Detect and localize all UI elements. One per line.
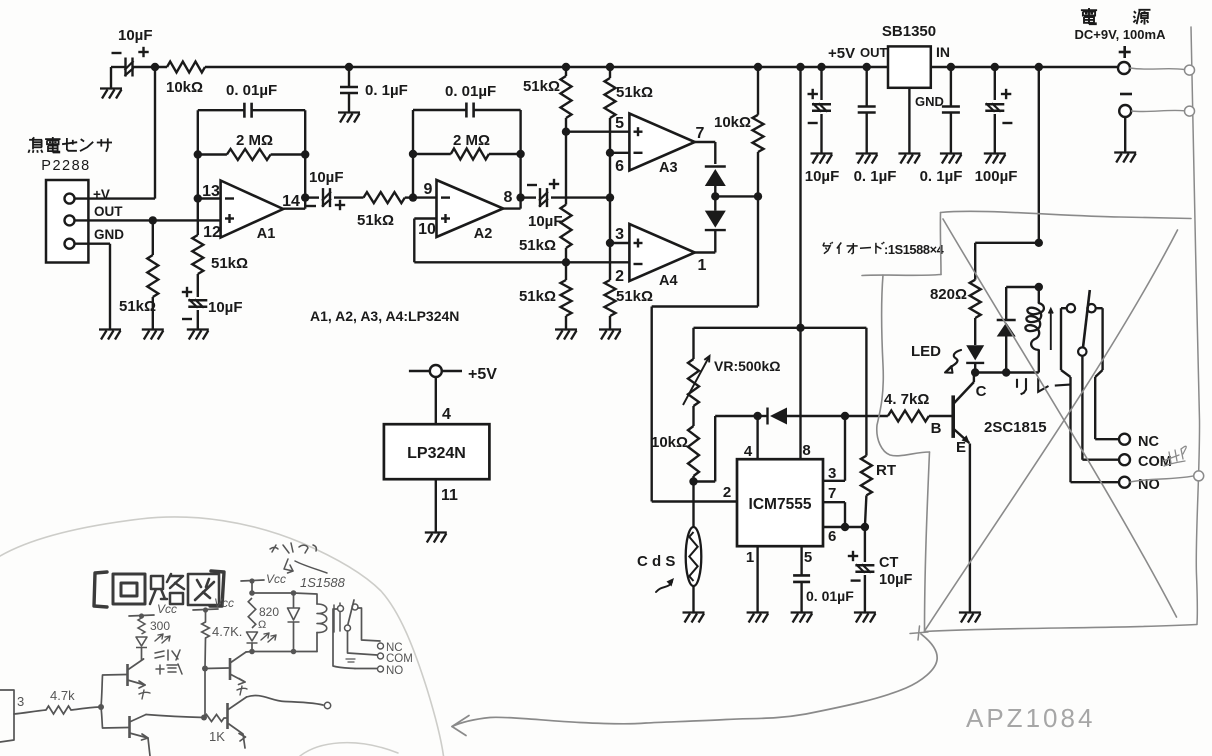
svg-text:8: 8 — [802, 442, 810, 459]
svg-text:2: 2 — [723, 484, 731, 501]
relay switch contacts — [1061, 304, 1103, 312]
diode 1S1588 D2 — [705, 211, 726, 231]
ground — [791, 613, 813, 623]
LED — [911, 343, 984, 373]
node rail x800 — [796, 63, 804, 71]
svg-text:COM: COM — [1138, 454, 1172, 470]
svg-text:51kΩ: 51kΩ — [616, 84, 653, 101]
svg-text:Vcc: Vcc — [214, 596, 234, 610]
node collector junction — [971, 368, 979, 376]
capacitor 10µF input filter — [112, 27, 153, 77]
ground — [142, 330, 164, 340]
svg-text:C d S: C d S — [637, 553, 675, 570]
resistor 51kΩ A1 gain — [192, 199, 248, 298]
regulator SB1350 — [860, 23, 950, 109]
wire — [133, 66, 168, 68]
wire A4 output — [695, 230, 716, 252]
node reference line — [562, 258, 570, 266]
svg-text:GND: GND — [915, 94, 944, 109]
ground sensor — [99, 330, 121, 340]
resistor RT — [861, 328, 896, 527]
wire — [111, 67, 126, 88]
capacitor 0.1µF input side — [920, 63, 963, 185]
svg-text:51kΩ: 51kΩ — [519, 288, 556, 305]
svg-text:51kΩ: 51kΩ — [519, 237, 556, 254]
capacitor 100µF input — [975, 63, 1018, 185]
wire A2 output — [503, 193, 536, 208]
op-amp A1 feedback capacitor 0.01µF — [198, 82, 305, 118]
node +V rail junction — [151, 63, 159, 71]
node rail x1038.8 — [1035, 63, 1043, 71]
svg-text:0. 1µF: 0. 1µF — [365, 82, 408, 99]
resistor 51kΩ divider top-right — [605, 67, 654, 153]
node OUT / 51k junction — [149, 216, 157, 224]
svg-text:51kΩ: 51kΩ — [616, 288, 653, 305]
ground — [940, 154, 962, 164]
svg-text:6: 6 — [615, 158, 624, 175]
wire feedback left — [412, 110, 414, 198]
ground — [811, 154, 833, 164]
terminal - 9V — [1119, 94, 1132, 117]
ground — [683, 613, 705, 623]
svg-text:OUT: OUT — [860, 45, 888, 60]
node rail x610 — [606, 63, 614, 71]
transistor Q1 2SC1815 — [929, 373, 1047, 457]
node coil top — [1035, 283, 1043, 291]
wire — [334, 196, 364, 198]
svg-text:3: 3 — [615, 226, 624, 243]
node relay top — [1035, 239, 1043, 247]
wire signal vertical — [609, 153, 611, 243]
wire diode junction to 10k — [715, 192, 762, 200]
svg-text:9: 9 — [424, 181, 433, 198]
wire main +V rail — [205, 66, 888, 68]
wire feedback right — [519, 110, 521, 209]
svg-text:RT: RT — [876, 462, 896, 479]
svg-text:820: 820 — [259, 605, 279, 619]
svg-text:10kΩ: 10kΩ — [651, 434, 688, 451]
svg-text:12: 12 — [203, 224, 221, 241]
ground — [984, 154, 1006, 164]
svg-text:10µF: 10µF — [118, 27, 153, 44]
resistor 51kΩ divider mid — [519, 205, 572, 263]
svg-text:10µF: 10µF — [309, 169, 344, 186]
resistor 2MΩ A2 feedback — [409, 132, 525, 160]
svg-text:10kΩ: 10kΩ — [714, 114, 751, 131]
svg-text:2 MΩ: 2 MΩ — [453, 132, 490, 149]
sensor P2288 焦電センサ — [28, 137, 124, 263]
pencil terminal circle - — [1132, 106, 1195, 116]
pencil title 回路図 — [94, 571, 224, 607]
svg-text:Vcc: Vcc — [157, 602, 177, 616]
wire divider mid-left — [565, 132, 567, 205]
pencil tick at box corner — [910, 626, 928, 640]
ground — [856, 154, 878, 164]
node CdS junction — [689, 477, 697, 485]
node signal to comparators — [606, 193, 614, 201]
pencil curved arrow — [452, 634, 937, 736]
wire rail down to relay — [1038, 67, 1040, 243]
svg-text:1: 1 — [746, 549, 754, 566]
ground — [425, 533, 447, 543]
svg-text:DC+9V, 100mA: DC+9V, 100mA — [1075, 27, 1167, 42]
svg-text:3: 3 — [828, 465, 836, 482]
wire pin 4 stub — [744, 416, 758, 460]
svg-text:100µF: 100µF — [975, 168, 1018, 185]
svg-text:1: 1 — [698, 257, 707, 274]
resistor 820Ω — [930, 280, 981, 318]
svg-text:COM: COM — [386, 653, 413, 665]
capacitor 0.1µF +5V — [854, 63, 897, 185]
wire pin 1 — [756, 546, 758, 612]
wire A3 plus — [566, 130, 629, 132]
svg-text:SB1350: SB1350 — [882, 23, 936, 40]
svg-text:NC: NC — [1138, 434, 1159, 450]
wire relay top branch — [975, 243, 1039, 280]
wire +5V feed down to timer — [799, 67, 801, 459]
resistor 2MΩ A1 feedback — [194, 132, 310, 160]
wire - terminal to ground — [1124, 117, 1126, 152]
wire — [711, 186, 719, 211]
terminal NC — [1119, 434, 1159, 450]
svg-text:10µF: 10µF — [805, 168, 840, 185]
wire diode line to base resistor — [845, 415, 888, 417]
pencil terminal circle NO — [1130, 471, 1204, 482]
terminal +5V LP324N — [409, 365, 497, 383]
relay armature — [1078, 290, 1090, 356]
node A4 plus input — [606, 239, 614, 247]
svg-text:LED: LED — [911, 343, 941, 360]
wire feedback right — [304, 110, 306, 209]
wire — [974, 318, 976, 345]
svg-text:0. 1µF: 0. 1µF — [854, 168, 897, 185]
wire A1 output — [283, 193, 319, 208]
svg-text:1K: 1K — [209, 729, 225, 744]
resistor 51kΩ divider bottom-right — [605, 243, 654, 329]
wire pin 3 — [823, 416, 845, 481]
svg-text:10µF: 10µF — [208, 299, 243, 316]
wire NC path — [1095, 308, 1119, 439]
pencil sketch blob outline — [0, 517, 444, 756]
node flyback bottom — [1002, 368, 1010, 376]
svg-text:APZ1084: APZ1084 — [966, 703, 1095, 733]
svg-text:10µF: 10µF — [879, 572, 912, 588]
svg-text:CT: CT — [879, 555, 898, 571]
wire COM path — [1082, 356, 1119, 460]
svg-text:0. 01µF: 0. 01µF — [226, 82, 277, 99]
svg-text:5: 5 — [804, 549, 812, 566]
svg-text:GND: GND — [94, 227, 124, 242]
wire +V from sensor — [75, 67, 156, 199]
terminal + 9V — [1118, 46, 1131, 74]
diode 1S1588 D1 — [705, 167, 726, 187]
wire relay bottom line — [975, 371, 1039, 373]
svg-text:NO: NO — [386, 665, 403, 677]
svg-text:2SC1815: 2SC1815 — [984, 419, 1047, 436]
svg-text:P2288: P2288 — [41, 158, 90, 174]
svg-text:51kΩ: 51kΩ — [119, 298, 156, 315]
svg-text:10: 10 — [418, 221, 436, 238]
ground — [599, 330, 621, 340]
wire pin 11 — [436, 479, 458, 532]
pencil X diagonal 2 — [925, 230, 1178, 631]
resistor 51kΩ divider bottom-left — [519, 262, 572, 329]
wire pin 8 stub — [799, 415, 801, 417]
op-amp A1 — [202, 181, 300, 243]
svg-text:IN: IN — [936, 44, 950, 60]
capacitor 10µF A1 gain — [182, 287, 243, 329]
node rail x758 — [754, 63, 762, 71]
resistor 4.7kΩ base — [884, 391, 929, 422]
wire A3 output — [695, 142, 716, 164]
terminal COM — [1119, 454, 1172, 470]
wire pin 4 — [436, 377, 451, 424]
svg-text:1S1588: 1S1588 — [300, 575, 346, 590]
ground — [555, 330, 577, 340]
wire comparator output to timer trigger — [652, 196, 758, 501]
svg-text:10µF: 10µF — [528, 213, 563, 230]
variable resistor VR 500kΩ — [683, 328, 780, 406]
wire — [974, 363, 976, 373]
svg-text:OUT: OUT — [94, 204, 123, 219]
node A3 plus input — [562, 128, 570, 136]
svg-text:4.7k: 4.7k — [50, 688, 75, 703]
op-amp A2 — [418, 180, 512, 242]
wire rail to power terminal — [931, 66, 1118, 68]
op-amp A4 — [615, 224, 706, 289]
timer IC ICM7555 — [723, 442, 837, 566]
label diode note ダイオード:1S1588×4 — [823, 242, 945, 257]
svg-text:A2: A2 — [474, 226, 493, 242]
wire — [551, 196, 610, 198]
svg-text:820Ω: 820Ω — [930, 286, 967, 303]
capacitor 10µF +5V — [805, 63, 840, 185]
wire regulator ground — [908, 88, 910, 153]
svg-text:VR:500kΩ: VR:500kΩ — [714, 358, 780, 374]
label +5V — [828, 45, 855, 62]
svg-text:0. 1µF: 0. 1µF — [920, 168, 963, 185]
svg-text:7: 7 — [696, 125, 705, 142]
ground — [898, 154, 920, 164]
wire pin 6 — [823, 523, 869, 531]
pencil sketch wires and parts — [0, 543, 413, 756]
svg-text:4. 7kΩ: 4. 7kΩ — [884, 391, 929, 408]
svg-text:5: 5 — [615, 115, 624, 132]
label LP324N assignment — [310, 308, 459, 324]
node pin4 — [753, 412, 761, 420]
pencil mark near COM — [1163, 446, 1186, 466]
op-amp A3 — [615, 114, 704, 177]
svg-text:0. 01µF: 0. 01µF — [806, 588, 854, 604]
svg-text:+5V: +5V — [468, 366, 497, 383]
wire A4 plus — [610, 242, 629, 244]
pencil cross-out box — [862, 211, 1197, 631]
capacitor 0.1µF rail decoupling — [340, 63, 408, 112]
svg-text:A4: A4 — [659, 273, 678, 289]
capacitor 10µF coupling A1-A2 — [306, 169, 345, 210]
wire junction to reset line — [694, 416, 758, 482]
svg-text:LP324N: LP324N — [407, 445, 466, 462]
wire A3 minus — [610, 152, 629, 154]
svg-text:E: E — [956, 439, 966, 456]
svg-text:8: 8 — [504, 189, 513, 206]
svg-text:4: 4 — [744, 443, 753, 460]
svg-text:ICM7555: ICM7555 — [749, 496, 812, 513]
diode flyback 1S1588 — [997, 287, 1039, 373]
IC LP324N — [384, 424, 490, 479]
ground — [959, 613, 981, 623]
pencil label APZ1084 — [966, 703, 1095, 733]
svg-text::1S1588×4: :1S1588×4 — [884, 242, 945, 257]
svg-text:11: 11 — [441, 487, 458, 504]
svg-text:Ω: Ω — [258, 619, 266, 631]
wire NO path — [1061, 308, 1119, 482]
svg-text:3: 3 — [17, 694, 24, 709]
wire pin 7 — [823, 502, 849, 531]
wire OUT from sensor — [75, 219, 221, 221]
resistor 10kΩ CdS divider — [651, 406, 699, 482]
resistor 10kΩ — [166, 62, 205, 97]
svg-text:0. 01µF: 0. 01µF — [445, 83, 496, 100]
svg-text:C: C — [976, 383, 987, 400]
ground — [338, 113, 360, 123]
ground — [747, 613, 769, 623]
wire GND from sensor — [75, 244, 111, 329]
svg-text:B: B — [931, 420, 942, 437]
capacitor CT 10µF — [848, 527, 913, 612]
ground — [854, 613, 876, 623]
wire A1 inverting input — [194, 194, 221, 202]
svg-text:A3: A3 — [659, 160, 678, 176]
resistor 51kΩ divider top-left — [523, 67, 572, 132]
pencil X diagonal 1 — [943, 219, 1177, 617]
svg-text:A1, A2, A3, A4:LP324N: A1, A2, A3, A4:LP324N — [310, 308, 459, 324]
svg-text:51kΩ: 51kΩ — [357, 212, 394, 229]
relay coil リレー — [1017, 287, 1070, 394]
svg-text:4: 4 — [442, 406, 451, 423]
resistor 10kΩ pull-up — [714, 67, 764, 196]
svg-text:A1: A1 — [257, 226, 276, 242]
node pin3 line — [841, 412, 849, 420]
pencil right edge line — [1191, 27, 1200, 624]
svg-text:7: 7 — [828, 485, 836, 502]
ground — [1114, 153, 1136, 163]
node rail x566 — [562, 63, 570, 71]
svg-text:10kΩ: 10kΩ — [166, 79, 203, 96]
capacitor 10µF coupling A2-comparators — [527, 179, 563, 230]
svg-text:4.7K.: 4.7K. — [212, 624, 242, 639]
resistor 51kΩ sensor load — [119, 220, 158, 329]
wire VR top line — [694, 324, 867, 332]
ground — [100, 89, 122, 99]
wire A2 non-inverting to reference — [414, 219, 629, 263]
svg-text:+5V: +5V — [828, 45, 855, 62]
svg-text:Vcc: Vcc — [266, 572, 286, 586]
wire feedback left — [197, 110, 199, 198]
svg-text:300: 300 — [150, 619, 170, 633]
diode 1S1588 reset — [758, 408, 845, 425]
capacitor 0.01µF pin5 — [793, 546, 854, 612]
svg-text:6: 6 — [828, 528, 836, 545]
wire A2 inverting input — [409, 193, 437, 201]
node A3 minus input — [606, 149, 614, 157]
svg-text:2 MΩ: 2 MΩ — [236, 132, 273, 149]
pencil terminal circle + — [1130, 65, 1195, 75]
wire emitter to ground — [969, 444, 971, 613]
ground — [187, 330, 209, 340]
svg-text:51kΩ: 51kΩ — [523, 78, 560, 95]
resistor 51kΩ A2 input — [357, 192, 413, 229]
svg-text:14: 14 — [282, 193, 300, 210]
photoresistor CdS — [637, 482, 701, 613]
terminal NO — [1119, 477, 1160, 493]
label 電源 power — [1075, 8, 1167, 42]
op-amp A2 feedback capacitor 0.01µF — [413, 83, 521, 118]
svg-text:51kΩ: 51kΩ — [211, 255, 248, 272]
svg-text:2: 2 — [615, 268, 624, 285]
